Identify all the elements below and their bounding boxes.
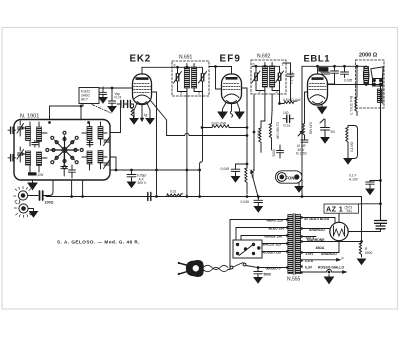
tube EBL1 grids [309,84,326,90]
tube EF9 anode top cap [226,77,238,80]
coil L1 [26,127,31,141]
caption S.A. GELOSO Mod G 46 R [57,240,140,245]
resistor 100 ohm in tuner [28,172,44,177]
tube EBL1 plate to top cap wire [317,66,319,73]
AVC bus wires [110,169,200,171]
chassis heater bus [46,196,362,198]
svg-text:P.1 M.55: P.1 M.55 [290,71,294,84]
svg-text:500 V.: 500 V. [138,181,147,185]
wire IF2 pin2 down [261,94,265,126]
svg-text:45ΩA: 45ΩA [316,246,325,250]
B+ feed vertical [380,85,382,221]
resistor 0.49M vertical [302,122,312,139]
ground below FONO [295,183,303,192]
mains tap GIALLO 125 [262,243,287,247]
coil L4 [37,152,42,166]
trimmer capacitor CT1 [17,121,24,136]
ground under EBL1 [318,105,327,114]
oscillator capacitor [99,87,107,103]
wire EK2 grid left [99,87,132,112]
padder capacitor Ca [117,101,128,108]
wire EK2 side to bus [153,92,157,197]
IF transformer N.691 box [172,61,209,96]
filter capacitor at B+ [348,221,386,232]
svg-text:m.1a: m.1a [283,124,290,128]
coil L8 [98,151,103,164]
mains switch [230,263,256,269]
svg-text:C.T.N.O. P×B: C.T.N.O. P×B [350,96,354,115]
svg-text:0,49 MΩ: 0,49 MΩ [309,122,313,135]
label N.555 power transformer [287,277,301,283]
capacitor 0.1 A.100 [349,174,381,195]
svg-text:100: 100 [283,111,289,115]
tube EK2 cathode [135,95,150,104]
wire IF2 secondary down [279,94,281,104]
svg-text:6,3V: 6,3V [305,266,313,270]
transformer primary winding [288,215,293,274]
svg-text:AP.7: AP.7 [81,98,88,102]
IF1 pin numbers [174,64,201,96]
label EF9 [220,54,242,65]
label EBL1 [304,54,331,65]
trimmer capacitor CT4 [104,160,110,169]
wires around oscillator [50,104,84,120]
padding capacitor left outer top [8,127,16,134]
wire IF2 pin3 down [271,94,274,122]
svg-text:5000: 5000 [264,273,272,277]
label 45mA [316,246,325,250]
tuner internal wires [22,122,107,173]
speaker horn and magnet [371,67,384,104]
tube EF9 pin leads [223,103,240,118]
series capacitor on bus [148,193,151,201]
ground below tuner box [28,180,37,190]
mains tap VERDE 140 [241,235,286,239]
rotary wafer switch S1 hub [62,147,67,152]
ground below feedback network [344,159,352,165]
wire EK2 plate to IF1 [142,67,173,73]
svg-text:50: 50 [331,130,335,134]
voltage selector block [233,240,262,258]
label N.691 [179,55,193,61]
AF coupling capacitor 100 [283,111,294,128]
volume potentiometer 50000 [245,167,255,194]
padder capacitor Cb [128,101,134,108]
tuner box N.1901 [14,120,110,181]
capacitor inside tuner left [32,141,38,148]
svg-text:S. A. GELOSO. — Mod. G. 46 R.: S. A. GELOSO. — Mod. G. 46 R. [57,240,140,245]
svg-text:N.74: N.74 [115,95,122,99]
antenna coupling capacitor 100 [28,191,54,205]
svg-text:0,045: 0,045 [241,200,250,204]
feedback resistor with loop [346,126,358,159]
padder label Vap [115,92,122,99]
svg-text:ROSSO⋅GIALLO: ROSSO⋅GIALLO [318,266,344,270]
output transformer primary coil [363,66,369,85]
wire IF1 secondary down to AVC [199,96,203,197]
electrolytic 10MF 50V N.1263 [296,131,308,156]
svg-text:FONO: FONO [286,175,299,180]
diode load resistor 0.5M [281,86,301,104]
heater winding BLEU [303,217,336,223]
tube EF9 envelope [222,74,242,104]
tube EF9 cathode [224,94,239,103]
line bypass capacitor 0.045 on bus [241,196,263,212]
tuner output wires down [71,180,84,197]
ground below heater winding [325,267,334,284]
label N.692 [257,54,271,60]
IF1 left trimmer [174,72,182,84]
svg-text:5000: 5000 [272,149,276,156]
coil L5 [87,127,92,141]
tube EF9 grids [223,84,240,90]
padding capacitor left outer bottom [8,155,16,162]
IF2 primary coil [262,66,267,87]
screen bypass label 5000 [318,67,329,74]
mechanical link dash-dot [92,105,111,114]
FONO pickup jack [276,171,303,183]
label 6.3V ROSSO GIALLO [303,266,347,274]
mains tap ROSSO 110 [262,251,286,255]
selector ladder wires [228,220,241,270]
tube EBL1 grid lead left [305,92,308,122]
IF2 right trimmer [276,71,284,83]
capacitor inside tuner right [87,141,93,148]
capacitor 0.05 AF 500V [127,170,147,188]
power transformer core [293,214,295,275]
ground under EK2 right [146,119,154,125]
svg-text:0,01: 0,01 [170,190,177,194]
tube EBL1 envelope [308,74,328,105]
wire transformer secondary line [327,84,381,86]
grid resistor 0.2M vertical [269,122,279,150]
label 270V ARANCIO [303,241,340,256]
ground from earth jack [28,209,37,218]
IF1 primary coil [184,67,189,88]
line bypass capacitor 5000 [254,268,271,284]
ground under EF9 right [235,112,244,119]
tube EK2 envelope [133,74,152,105]
screen feed wire [301,66,303,196]
tube EF9 plate lead [231,67,233,74]
oscillator grid resistor [131,104,133,119]
svg-text:2: 2 [180,92,182,96]
tone resistor vertical with label [350,66,358,115]
label 2.5A fuse F [303,256,345,264]
label N.1901 tuner unit [20,114,39,120]
svg-text:EK2: EK2 [130,54,151,65]
wire IF1 to EF9 grid [209,66,232,89]
label EK2 [130,54,151,65]
tube EBL1 cathode [310,95,325,104]
earth jack TERRA [14,200,31,217]
detector diode capacitor N.55 [283,63,294,86]
tube EBL1 anode top cap [312,77,324,80]
rectifier tube AZ1 [330,213,348,240]
svg-text:AZ 1: AZ 1 [326,205,343,214]
resistor 0.01 on bus [165,190,183,197]
tube EK2 pin leads [134,103,150,121]
mains tap GRIGIO 0 [257,267,286,271]
wire IF1 pin2 down to chassis [186,96,188,197]
label 620V [303,236,317,240]
IF2 secondary coil [270,66,275,87]
svg-text:J/W: J/W [38,173,45,177]
svg-text:5000: 5000 [319,68,327,72]
capacitor C6 inside tuner [69,165,76,178]
IF2 internal wires [252,63,280,95]
back bias resistor [358,197,373,265]
rotary switch spokes and contacts [46,131,83,168]
IF1 right trimmer [199,72,207,84]
AF bypass capacitor 0.045 [221,163,248,182]
svg-text:0,2 MΩ ¼W: 0,2 MΩ ¼W [276,122,280,139]
AVC resistor 1M vertical [257,126,262,152]
voice coil winding [377,89,381,103]
capacitor 0.025 [341,66,353,82]
wire antenna to tuner [49,180,53,196]
svg-text:2: 2 [198,92,200,96]
IF2 left trimmer [252,71,260,83]
trimmer capacitor CT2 [17,147,24,162]
label 2000 ohm speaker impedance [359,53,378,59]
ground under EF9 left [218,112,227,119]
svg-text:100Ω: 100Ω [45,201,54,205]
mains tap NERO 220 [230,219,286,223]
svg-text:5000: 5000 [365,251,373,255]
coil L2 [37,127,42,142]
svg-text:2000 Ω: 2000 Ω [359,53,378,59]
label MARRONE [303,238,363,243]
IF1 secondary coil [192,67,197,88]
tube EF9 left lead [216,88,222,90]
secondary taps [300,216,302,273]
mains plug [178,260,204,276]
tuner right side exit wires [110,108,121,171]
rectifier label box AZ1 [324,204,359,214]
svg-text:0,1 MΩ: 0,1 MΩ [350,141,354,152]
ground under EK2 left [130,119,138,125]
svg-text:N. 1901: N. 1901 [20,114,39,120]
AVC line verticals [253,95,255,171]
oscillator box N.822 [79,88,99,104]
screen resistor 1M half W [201,122,247,129]
IF transformer N.692 box [251,60,286,94]
svg-text:0,045: 0,045 [221,167,230,171]
svg-text:1 MΩ: 1 MΩ [257,130,261,138]
coil L3 [26,151,31,165]
tube EK2 grids [134,84,151,93]
HV winding ARANCIO top [303,228,330,232]
twisted mains cord [204,265,229,271]
antenna jack ANTENNA [14,187,31,204]
tube EF9 right lead [242,88,248,167]
svg-text:EBL1: EBL1 [304,54,331,65]
svg-text:EF9: EF9 [220,54,242,65]
coil L7 [87,151,92,164]
svg-text:A.100: A.100 [349,177,358,181]
svg-text:1mΩ ½W: 1mΩ ½W [211,122,227,126]
transformer secondary winding [295,215,300,274]
mains tap BLEU 160 [236,227,286,231]
oscillator bias line [151,101,255,137]
svg-text:N.555: N.555 [287,277,301,283]
capacitor at EBL1 right [327,66,339,84]
svg-text:N.692: N.692 [257,54,271,60]
capacitor C5 inside tuner [61,153,68,176]
svg-text:54): 54) [347,209,352,213]
tube EK2 anode top cap [136,77,149,80]
cathode electrolytic 50 [320,119,335,143]
coil L6 [98,127,103,140]
trimmer capacitor CT3 [104,137,110,146]
B+ screen rail [302,65,366,67]
IF1 internal wires [173,64,203,97]
wire AZ1 label to B+ [359,203,381,205]
svg-text:0,025: 0,025 [344,79,352,83]
IF2 pin numbers [253,63,284,95]
capacitor 5000 detector [272,145,284,158]
svg-text:1g: 1g [144,113,148,117]
potentiometer wiper arrow [251,171,259,199]
svg-text:0,5 MΩ ¼W: 0,5 MΩ ¼W [283,98,301,102]
svg-text:N.691: N.691 [179,55,193,61]
primary taps [286,218,288,268]
speaker box dashed [356,60,385,108]
svg-text:N.1263: N.1263 [296,152,307,156]
